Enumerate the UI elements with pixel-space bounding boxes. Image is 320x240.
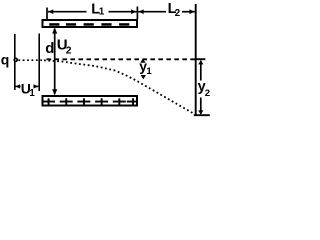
U1 dimension (accelerating voltage) [15, 84, 38, 88]
svg-text:1: 1 [29, 88, 35, 99]
svg-text:2: 2 [205, 88, 210, 99]
svg-text:d: d [45, 40, 54, 57]
charge q circle [14, 58, 17, 61]
top deflection plate (negative) [43, 20, 138, 27]
svg-text:2: 2 [66, 46, 72, 57]
dotted trajectory (parabola inside plates, straight after) [44, 60, 194, 113]
svg-text:q: q [1, 51, 10, 67]
bottom deflection plate (positive) [42, 96, 137, 106]
right electrode line [38, 34, 40, 92]
left electrode line (with charge) [14, 34, 16, 90]
svg-text:1: 1 [146, 66, 152, 77]
svg-text:2: 2 [175, 8, 180, 19]
L2 dimension [138, 9, 195, 14]
svg-text:1: 1 [99, 7, 105, 18]
y2 dimension [194, 59, 210, 115]
screen line (right) [195, 4, 197, 116]
dotted initial path from charge [18, 59, 44, 61]
L1 dimension [47, 7, 137, 20]
y1 dimension [140, 59, 146, 80]
dashed reference line (undeflected path) [47, 58, 196, 60]
d / U2 dimension arrow (between plates) [52, 28, 57, 95]
